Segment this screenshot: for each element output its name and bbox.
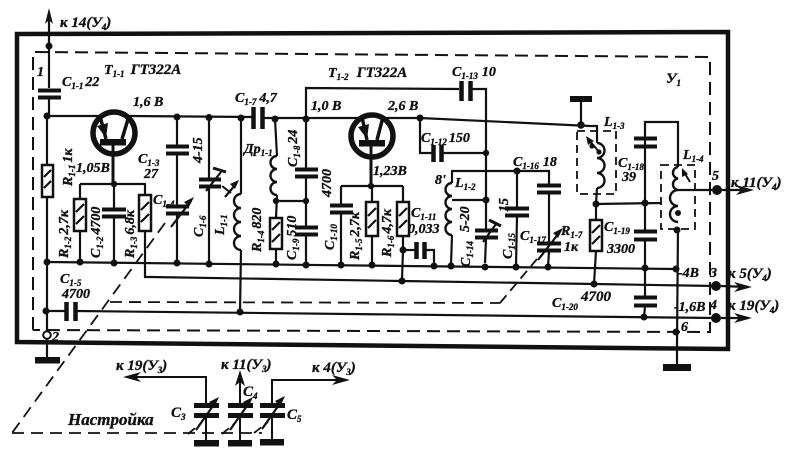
node rail left [44, 113, 51, 120]
resistor R1-1 [42, 165, 53, 197]
wire R1-4 node to C1-9 [276, 200, 306, 202]
wire R1-1 top [46, 116, 48, 165]
arrow head k14 up [45, 8, 53, 24]
inductor L1-1 [240, 118, 242, 194]
arrow k19(U4) [721, 317, 748, 319]
capacitor C1-3 [176, 117, 178, 146]
wire R1-3 bottom to line B [145, 231, 150, 277]
svg-text:1,6 В: 1,6 В [133, 95, 163, 110]
choke Dr1-1 [275, 119, 277, 156]
transistor T1-1 [93, 112, 135, 154]
svg-text:6: 6 [681, 320, 688, 335]
arrow k5(U4) [721, 286, 748, 287]
inductor L1-2 [452, 171, 517, 183]
ground left [35, 357, 60, 364]
gang stub C4 [222, 424, 234, 434]
resistor R1-5 [371, 186, 373, 202]
capacitor C1-13 plates [459, 81, 464, 101]
svg-text:R1-64,7к: R1-64,7к [380, 208, 396, 258]
wire base bias row [80, 183, 146, 185]
svg-text:4700: 4700 [320, 169, 335, 198]
inner dashed border [33, 52, 710, 332]
svg-text:4700: 4700 [580, 289, 612, 305]
svg-text:4-15: 4-15 [191, 137, 206, 164]
dashed gang horizontal mid [110, 302, 500, 303]
arrow L1-1 adjust [225, 184, 236, 197]
resistor R1-3 [144, 184, 146, 195]
resistor R1-4 [270, 218, 282, 249]
line C -1.6V bus [76, 311, 716, 318]
wire rail T1-1 to C1-3 node [129, 116, 253, 117]
wire L1-2 tap [452, 199, 486, 201]
capacitor C1-4 variable [176, 155, 178, 206]
wire R1-1 bottom to ground bus [46, 197, 48, 263]
capacitor C1-15 [516, 171, 518, 208]
svg-text:R1-52,7к: R1-52,7к [348, 211, 364, 261]
svg-text:1,23В: 1,23В [373, 164, 407, 179]
wire pin2 to ground [46, 339, 48, 357]
arrow k11(U4) [722, 189, 750, 191]
node top entry [46, 43, 53, 50]
resistor R1-7 [595, 204, 597, 220]
ground right [676, 342, 678, 365]
L1-4 polarity dot [675, 210, 681, 216]
svg-text:-1,6В: -1,6В [674, 300, 706, 315]
wire T1-2 base lead [370, 146, 373, 186]
capacitor C1-11 [403, 249, 416, 251]
capacitor C1-18 [645, 122, 678, 203]
inductor L1-3 [597, 143, 605, 188]
svg-text:С1-24700: С1-24700 [89, 207, 105, 258]
T-bar test point [570, 96, 592, 102]
svg-text:1,0 В: 1,0 В [311, 99, 341, 114]
capacitor C1-1 plates [38, 89, 61, 93]
capacitor C1-9 [295, 226, 318, 230]
pin 3 [711, 281, 721, 291]
wire k14 entry vertical [48, 16, 50, 88]
wire riser to C1-13 line [306, 88, 459, 119]
wire L1-4 tap to pin 5 [678, 189, 712, 191]
ground bus line A [47, 262, 676, 269]
gang stub C5 [254, 422, 268, 433]
L1-4 dashed box [661, 165, 695, 229]
svg-text:3: 3 [709, 266, 717, 281]
arrow k19(U3) [130, 377, 206, 403]
inductor L1-4 [670, 167, 678, 222]
svg-text:5-20: 5-20 [458, 206, 473, 232]
pin 5 [712, 185, 722, 195]
dashed gang diagonal to C1-17 [500, 259, 537, 303]
svg-text:0,033: 0,033 [408, 222, 440, 237]
L1-3 core arrow and dots [589, 140, 600, 153]
wire L1-4 bottom down to ground [677, 227, 678, 342]
capacitor C1-16 [517, 171, 549, 185]
wire L1-3 bottom row [596, 203, 662, 204]
capacitor C3 variable [194, 403, 219, 408]
capacitor C1-5 [46, 310, 67, 312]
pin 2 circle [43, 331, 51, 339]
svg-text:39: 39 [621, 170, 636, 185]
capacitor C5 variable [260, 403, 285, 408]
arrow k11(U3) [239, 377, 241, 403]
capacitor C4 variable [228, 403, 253, 408]
svg-text:R1-22,7к: R1-22,7к [57, 209, 73, 259]
svg-text:27: 27 [143, 167, 159, 182]
resistor R1-2 [79, 184, 81, 199]
wire pin2 drop [46, 262, 48, 331]
capacitor C1-10 [340, 186, 342, 205]
capacitor C1-14 trimmer [485, 200, 487, 230]
wire T1-2 collector rail to L1-3 [382, 117, 420, 119]
transistor T1-2 [351, 115, 393, 157]
wire rail C1-7 to T1-2 [263, 117, 363, 119]
wire base row [341, 185, 403, 187]
wire left rail to T1-1 emitter [47, 115, 101, 117]
dashed gang bottom horizontal [12, 432, 262, 434]
outer border U1 box [17, 32, 728, 349]
wire T1-1 base lead [112, 145, 115, 184]
pin 4 [711, 313, 721, 323]
svg-text:1: 1 [37, 65, 44, 80]
svg-text:8': 8' [435, 173, 446, 188]
svg-text:3300: 3300 [606, 242, 635, 257]
capacitor C1-6 trimmer [208, 117, 210, 179]
dashed gang diagonal from C1-4 [12, 223, 165, 433]
wire C1-1 to rail [48, 99, 50, 116]
svg-text:R1-36,8к: R1-36,8к [123, 209, 139, 259]
capacitor C1-2 [113, 184, 115, 209]
svg-text:2: 2 [51, 330, 59, 345]
svg-text:Настройка: Настройка [67, 410, 154, 429]
svg-text:1к: 1к [564, 240, 579, 255]
svg-text:15: 15 [497, 198, 512, 212]
bus A junction dots [77, 259, 84, 266]
capacitor C1-20 [644, 268, 646, 297]
capacitor C1-17 variable [537, 242, 561, 246]
capacitor C1-8 [305, 119, 307, 169]
wire C1-13 out down [471, 89, 486, 200]
svg-text:4: 4 [709, 298, 717, 313]
L1-3 dashed box [577, 131, 616, 194]
svg-text:4700: 4700 [61, 287, 90, 302]
capacitor C1-12 [417, 115, 424, 122]
capacitor C1-19 [644, 203, 646, 231]
svg-text:1,05В: 1,05В [76, 161, 110, 176]
svg-text:-4В: -4В [678, 266, 699, 281]
L1-4 core arrow [684, 172, 690, 182]
gang stub C3 [188, 424, 200, 434]
resistor R1-6 [402, 186, 404, 202]
arrow k4(U3) [272, 380, 343, 403]
capacitor C1-7 plates [251, 107, 256, 129]
svg-text:2,6 В: 2,6 В [387, 99, 418, 114]
line B -4V bus [150, 277, 716, 286]
svg-text:5: 5 [712, 169, 719, 184]
